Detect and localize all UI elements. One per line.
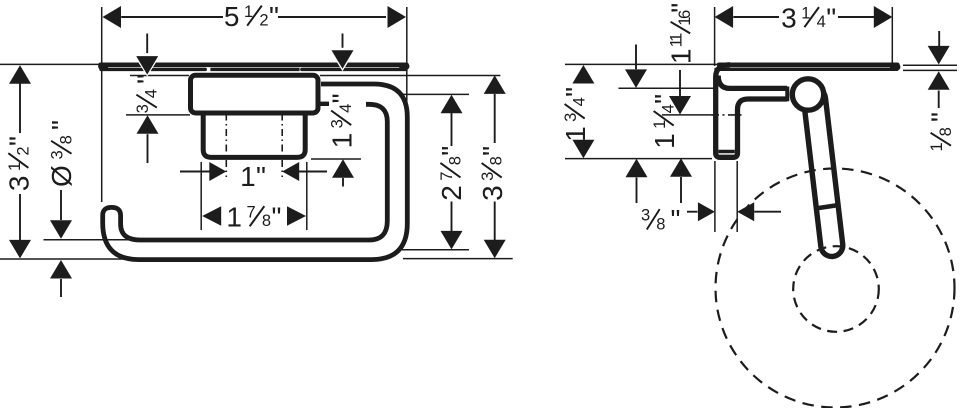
dimension 2-7/8 bottom arrow [441,231,463,250]
dimension 3/4 top arrow white casing [133,53,162,77]
shelf bar left end cap [102,63,106,70]
svg-text:": " [272,202,282,233]
extension line wire centerline right (2-7/8 ref) [402,249,469,251]
svg-text:3: 3 [134,104,152,113]
extension line foot bottom (side) [565,158,712,160]
svg-text:5: 5 [224,1,240,32]
dimension 1-11/16 line [679,70,681,96]
dimension 3-1/2 top arrow [9,65,31,84]
wire attachment nub [320,102,329,106]
label 3/8 inch (side) [641,204,680,235]
dimension 5-1/2 line left seg [121,16,223,18]
dimension 3/8 arrow left [698,202,715,221]
dimension 3-1/2 line upper [19,75,21,133]
dimension 1/8 top arrow [928,46,950,65]
dimension 5-1/2 line right seg [278,16,386,18]
svg-text:1: 1 [240,161,256,192]
label 1/8 inch (rotated) [926,112,957,151]
dimension 3/8 arrow right [737,202,754,221]
leader line above 3/4 top arrow [146,34,148,58]
svg-text:3: 3 [4,176,35,192]
label 3 1/2 inch (rotated) [4,136,35,191]
label 3 1/4 inch [781,3,836,34]
side view: shelf profile lower edge [716,68,897,71]
dimension 2-7/8 top arrow [441,95,463,114]
dimension 1-3/4 side bottom arrow [572,140,594,159]
mounting plate under bracket [203,115,305,158]
dimension 3-1/2 line lower [19,194,21,248]
svg-text:": " [436,146,467,156]
side view: shelf profile top edge [719,63,897,68]
wall bracket box [191,75,319,113]
label 1 1/4 inch side (rotated) [649,94,680,149]
extension line shelf top right (1/8 ref) [903,64,957,66]
svg-text:2: 2 [14,146,32,155]
shelf bar right end cap [403,63,407,70]
dimension 1-7/8 arrow left [202,206,221,226]
extension line 1-7/8 left [200,162,202,230]
svg-text:": " [666,3,697,13]
dimension 1-1/4 side top arrow [625,69,647,88]
dimension dia-3/8 upper leader [60,190,62,220]
dimension 3-1/4 arrow left [715,6,734,28]
extension line shelf top left (side) [565,63,717,65]
extension line bracket bottom (3/4 ref) [126,114,190,116]
side bracket foot step line [718,150,734,154]
dimension 3-1/2 bottom arrow [9,240,31,259]
svg-text:2: 2 [436,185,467,201]
screw hole centerline right [281,114,283,178]
extension line hole centerline (side) [662,114,711,116]
roll holder wire loop [103,84,408,260]
front view: wall shelf bar top edge [101,63,407,68]
svg-text:8: 8 [656,215,665,233]
dimension 1/8 lower leader [938,91,940,109]
dimension 3-1/4 line right seg [838,16,874,18]
svg-text:": " [131,74,162,84]
dimension 1 inch line right [299,171,327,173]
arm joint crossbar [815,205,837,208]
dimension 1/8 upper leader [938,31,940,46]
roll holder arm outer [815,99,832,246]
svg-text:": " [477,146,508,156]
svg-text:1: 1 [928,142,946,151]
svg-text:1: 1 [560,126,591,142]
dimension 2-7/8 line [451,112,453,146]
front view: shelf bar lower edge seg1 [101,68,205,71]
svg-text:3: 3 [49,150,67,159]
extension line shelf bottom right (1/8 ref) [903,69,957,71]
dimension dia-3/8 top arrow [50,220,72,239]
svg-text:1: 1 [649,133,680,149]
dimension 3-1/4 arrow right [874,6,893,28]
leader below 1-11/16 arrow [680,177,682,203]
extension line mount bottom (1-3/4 ref) [311,158,361,160]
svg-text:": " [671,204,681,235]
dimension 3/4 top arrow [136,56,158,75]
dimension 3/8 line right [754,211,781,213]
extension line 3-1/4 left [714,7,716,66]
pivot circle [792,79,823,110]
svg-text:": " [560,87,591,97]
svg-text:": " [256,161,266,192]
extension line foot left (3/8 ref) [714,161,716,232]
svg-text:": " [826,3,836,34]
svg-text:8: 8 [937,127,955,136]
side shelf right end cap [894,63,897,70]
svg-text:1: 1 [666,49,697,65]
screw hole centerline left [225,114,227,178]
hole centerline dash-dot through plate [711,114,742,116]
extension line foot right (3/8 ref) [736,161,738,232]
leader below 1-1/4 arrow [636,178,638,204]
dimension dia-3/8 bottom arrow [50,260,72,279]
svg-text:3: 3 [641,207,650,225]
front view: shelf bar lower edge seg3 [302,68,406,71]
label dia 3/8 inch (rotated) [46,120,77,187]
front view: shelf bar lower edge seg2 (bracket tab) [210,68,299,71]
label 1 3/4 inch (rotated) [327,93,358,148]
svg-text:8: 8 [488,156,506,165]
dimension 1 inch arrow left [209,162,226,181]
dimension 2-7/8 line lower [451,202,453,232]
label 5 1/2 inch [224,1,279,32]
dimension 5-1/2 arrow left [103,6,122,28]
extension line 5-1/2 right [406,7,408,108]
dimension 1/8 bottom arrow [928,71,950,90]
svg-text:3: 3 [477,185,508,201]
svg-text:4: 4 [143,89,161,98]
label 1 inch [240,161,266,192]
dimension 3-3/8 line lower [494,202,496,241]
svg-text:8: 8 [262,212,271,230]
dimension 1-3/4 top arrow [332,50,354,69]
dimension 3/4 bottom arrow [137,115,159,134]
svg-text:8: 8 [57,135,75,144]
svg-text:3: 3 [781,3,797,34]
svg-text:1: 1 [327,133,358,149]
label 2 7/8 inch (rotated) [436,146,467,201]
side bracket outer profile [716,65,787,158]
dashed toilet roll outline [716,169,955,408]
dimension 5-1/2 arrow right [388,6,407,28]
roll holder arm inner white [815,99,832,246]
extension line wire bottom right seg [403,258,513,260]
dimension 3-3/8 top arrow [484,75,506,94]
dimension 1-1/4 side line upper [635,45,637,70]
extension line arm top (side) [619,87,715,89]
extension line 3-1/4 right [891,7,893,65]
extension line bracket top left (3/4 ref) [130,75,189,77]
svg-text:2: 2 [259,12,268,30]
label 3 3/8 inch (rotated) [477,146,508,201]
extension line bracket top right (3-3/8 ref) [320,75,500,77]
dimension 3-1/4 line left seg [733,16,779,18]
svg-text:4: 4 [571,97,589,106]
extension line wire dia top (3/8 ref) [44,239,137,241]
dimension 1-11/16 top arrow [669,96,691,115]
dimension 1-1/4 side bottom arrow [626,159,648,178]
dashed roll core circle [793,246,879,332]
extension line 5-1/2 left [101,7,103,202]
label 1 3/4 inch side (rotated) [560,87,591,142]
svg-text:Ø: Ø [46,165,77,187]
extension line 1-7/8 right [306,162,308,230]
dimension 1 inch line left [180,171,210,173]
svg-text:4: 4 [337,104,355,113]
dimension 1 inch arrow right [282,162,299,181]
extension line wire top right (2-7/8 ref) [400,93,469,95]
svg-text:8: 8 [446,156,464,165]
dimension 3-3/8 bottom arrow [484,240,506,259]
svg-text:1: 1 [226,202,242,233]
label 1 11/16 inch (rotated) [666,3,697,64]
extension line wire bottom full [0,258,126,260]
svg-text:": " [269,1,279,32]
leader below 1-3/4 bottom arrow [342,178,344,187]
side bracket arm top edge [718,76,787,89]
svg-text:": " [4,136,35,146]
dimension 3-3/8 line [494,94,496,143]
dimension 3/8 line left [687,211,698,213]
label 1 7/8 inch [226,202,281,233]
dimension dia-3/8 lower leader [60,279,62,297]
dimension 1-3/4 side top arrow [572,65,594,84]
dimension 1-11/16 bottom arrow [670,158,692,177]
dimension 1-3/4 bottom arrow [332,159,354,178]
svg-text:": " [46,120,77,130]
extension line left margin at shelf top [0,63,99,65]
leader line above 1-3/4 top arrow [342,34,344,52]
leader below 3/4 bottom arrow [147,134,149,163]
arm hub end cap [785,87,789,102]
dimension 1-3/4 top arrow white casing [328,48,357,72]
dimension 1-7/8 arrow right [287,206,306,226]
svg-text:": " [327,93,358,103]
svg-text:4: 4 [817,13,826,31]
svg-text:": " [926,112,957,122]
label 3/4 inch (rotated) [131,74,162,113]
